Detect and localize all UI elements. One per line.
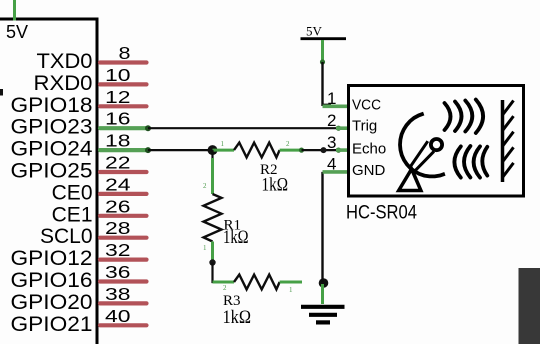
wire R1 to R3 corner — [213, 263, 216, 283]
pin 12 GPIO18 — [11, 87, 147, 117]
emitted wave 2 — [455, 102, 462, 132]
svg-text:SCL0: SCL0 — [40, 225, 93, 248]
emitted wave 1 — [445, 103, 451, 130]
echo wave 3 — [474, 146, 480, 177]
pin 8 TXD0 — [37, 43, 147, 73]
Raspberry Pi GPIO header outline U2 — [0, 19, 97, 344]
svg-text:1kΩ: 1kΩ — [223, 227, 249, 248]
svg-text:26: 26 — [105, 196, 131, 216]
svg-text:1kΩ: 1kΩ — [223, 307, 252, 328]
svg-text:1: 1 — [327, 89, 336, 108]
wall line — [501, 100, 505, 182]
HC-SR04 pin 4 GND leg — [323, 170, 348, 174]
svg-text:GPIO24: GPIO24 — [11, 138, 93, 161]
svg-text:1: 1 — [221, 140, 225, 148]
svg-text:GPIO18: GPIO18 — [11, 94, 93, 117]
pin 38 GPIO20 — [11, 284, 147, 314]
echo wave 4 — [482, 147, 487, 176]
resistor R2 1k — [213, 140, 305, 196]
wire GND pin4 down — [321, 172, 323, 282]
echo wave 1 — [454, 146, 460, 177]
svg-text:2: 2 — [223, 284, 227, 292]
svg-text:38: 38 — [105, 284, 131, 304]
svg-text:10: 10 — [105, 65, 131, 85]
svg-text:RXD0: RXD0 — [34, 72, 93, 95]
wall hatch 3 — [503, 132, 514, 147]
emitted wave 3 — [465, 101, 472, 132]
HC-SR04 pin 2 leg — [336, 126, 348, 130]
junction node B (GND) — [319, 278, 329, 288]
svg-text:2: 2 — [286, 140, 290, 148]
svg-text:GPIO23: GPIO23 — [11, 116, 93, 139]
wire R1 bottom lead — [203, 242, 216, 266]
pin 36 GPIO16 — [11, 262, 147, 292]
svg-text:TXD0: TXD0 — [37, 50, 93, 73]
svg-text:1: 1 — [203, 244, 207, 252]
transducer dish arc — [400, 114, 445, 177]
wire to ground — [321, 284, 324, 304]
wire Echo net GPIO24 to junction — [145, 147, 210, 153]
svg-text:5V: 5V — [306, 24, 323, 39]
wire Trig net GPIO23 to HC-SR04 pin2 — [145, 125, 341, 131]
wall hatch 2 — [503, 116, 514, 131]
pin 24 CE0 — [52, 174, 147, 204]
svg-text:CE0: CE0 — [52, 181, 93, 204]
power symbol 5V — [301, 24, 347, 39]
wall hatch 1 — [503, 101, 514, 116]
svg-text:3: 3 — [327, 133, 336, 152]
svg-text:GPIO21: GPIO21 — [11, 313, 93, 336]
junction node A — [208, 145, 218, 155]
emitted wave 4 — [476, 100, 483, 134]
svg-text:1: 1 — [289, 286, 293, 294]
dark corner overlay — [519, 268, 540, 344]
svg-text:Trig: Trig — [352, 118, 377, 135]
pin 28 SCL0 — [40, 218, 147, 248]
svg-text:2: 2 — [327, 111, 336, 130]
svg-text:12: 12 — [105, 87, 131, 107]
pin 16 GPIO23 — [11, 109, 147, 139]
svg-text:22: 22 — [105, 153, 131, 173]
transducer feed lines — [409, 141, 428, 168]
svg-text:CE1: CE1 — [52, 203, 93, 226]
svg-text:24: 24 — [105, 174, 131, 194]
resistor R3 1k — [213, 275, 303, 328]
svg-text:40: 40 — [105, 306, 131, 326]
echo wave 2 — [464, 146, 470, 178]
svg-text:28: 28 — [105, 218, 131, 238]
svg-text:VCC: VCC — [352, 97, 381, 114]
pin 40 GPIO21 — [11, 306, 147, 336]
svg-text:32: 32 — [105, 240, 131, 260]
pin 10 RXD0 — [34, 65, 147, 95]
pin 32 GPIO12 — [11, 240, 147, 270]
HC-SR04 module U1 box — [349, 86, 524, 197]
cropped pin stub left edge — [0, 89, 3, 96]
HC-SR04 pin 3 leg — [336, 148, 348, 152]
svg-text:GPIO20: GPIO20 — [11, 291, 93, 314]
wire junction down to R1 — [203, 150, 213, 194]
svg-text:GPIO25: GPIO25 — [11, 160, 93, 183]
wall hatch 4 — [503, 147, 514, 162]
svg-text:GPIO16: GPIO16 — [11, 269, 93, 292]
svg-text:36: 36 — [105, 262, 131, 282]
svg-text:18: 18 — [105, 131, 131, 151]
svg-text:16: 16 — [105, 109, 131, 129]
svg-text:2: 2 — [203, 182, 207, 190]
svg-text:GPIO12: GPIO12 — [11, 247, 93, 270]
svg-text:8: 8 — [119, 43, 131, 63]
svg-text:GND: GND — [352, 162, 386, 179]
svg-text:HC-SR04: HC-SR04 — [346, 203, 417, 224]
transducer horn circle — [431, 139, 442, 150]
svg-text:1kΩ: 1kΩ — [262, 175, 289, 196]
wire 5V to VCC — [320, 40, 331, 105]
transducer base triangle — [399, 169, 421, 191]
pin 22 GPIO25 — [11, 153, 147, 183]
svg-text:4: 4 — [327, 155, 336, 174]
svg-text:Echo: Echo — [352, 140, 386, 157]
resistor R1 1k — [204, 194, 249, 248]
pin 18 GPIO24 — [11, 131, 147, 161]
wire 5V up from Pi — [13, 0, 16, 21]
svg-text:5V: 5V — [6, 22, 28, 42]
wall hatch 5 — [503, 163, 514, 178]
ground — [301, 307, 345, 323]
wire Echo to pin3 — [302, 147, 342, 153]
HC-SR04 pin 1 VCC leg — [323, 105, 348, 109]
pin 26 CE1 — [52, 196, 147, 226]
